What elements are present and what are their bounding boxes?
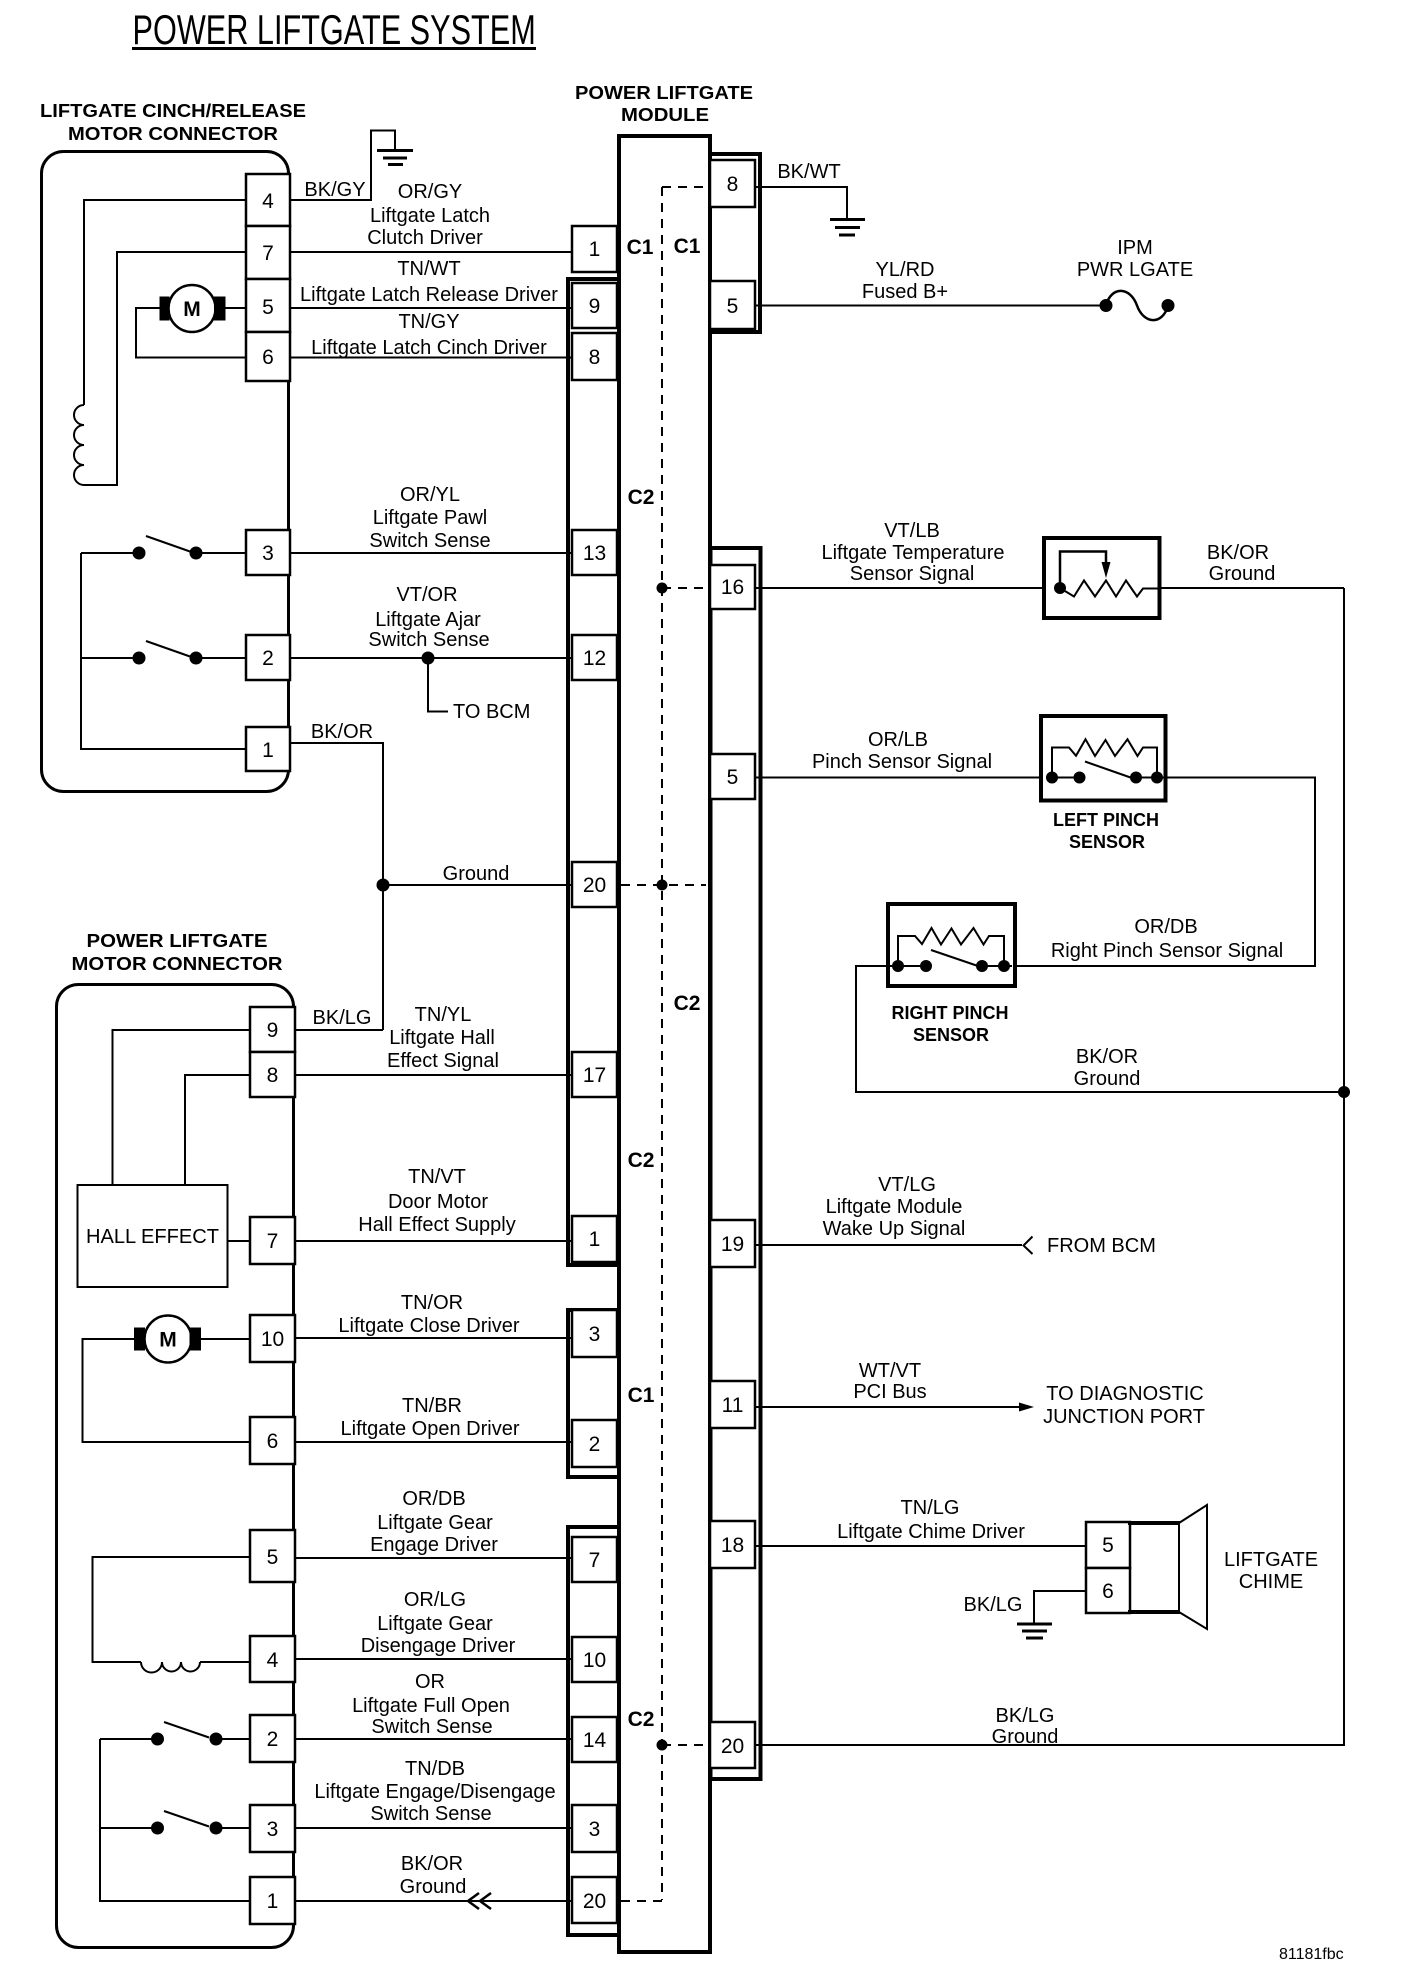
svg-text:11: 11	[722, 1394, 744, 1417]
module left pin 20 C2	[572, 862, 617, 907]
module right pin 18 C2	[710, 1521, 755, 1568]
J2 pin 1	[250, 1877, 295, 1924]
svg-text:Liftgate Engage/Disengage: Liftgate Engage/Disengage	[314, 1781, 555, 1803]
svg-text:10: 10	[583, 1649, 606, 1672]
switch S1 liftgate pawl switch	[81, 536, 246, 560]
svg-text:POWER LIFTGATE SYSTEM: POWER LIFTGATE SYSTEM	[133, 6, 536, 53]
label BK/OR Ground right pinch	[1074, 1046, 1141, 1090]
svg-text:Liftgate Gear: Liftgate Gear	[377, 1613, 493, 1635]
svg-text:OR/DB: OR/DB	[1134, 916, 1197, 938]
label OR/LB Pinch Sensor Signal	[812, 729, 992, 773]
wire J1-2 to module C2-12	[290, 657, 572, 659]
svg-text:Switch Sense: Switch Sense	[371, 1716, 492, 1738]
internal C1/C2 dashed bus	[661, 187, 663, 1900]
svg-text:Ground: Ground	[400, 1876, 467, 1898]
svg-text:MOTOR CONNECTOR: MOTOR CONNECTOR	[68, 124, 278, 144]
svg-text:C2: C2	[628, 1708, 655, 1731]
svg-text:Fused B+: Fused B+	[862, 281, 948, 303]
label LIFTGATE CINCH/RELEASE MOTOR CONNECTOR	[40, 101, 306, 144]
svg-text:20: 20	[721, 1735, 744, 1758]
J1 pin 5	[246, 279, 290, 332]
wire switch common bus to pin1	[81, 553, 246, 749]
wire module C2-11 PCI bus	[755, 1406, 1021, 1408]
svg-text:Effect Signal: Effect Signal	[387, 1050, 499, 1072]
svg-text:TN/WT: TN/WT	[397, 258, 460, 280]
connector group box C1 left	[568, 1310, 619, 1477]
svg-text:LIFTGATE CINCH/RELEASE: LIFTGATE CINCH/RELEASE	[40, 101, 306, 121]
J2 pin 3	[250, 1805, 295, 1852]
svg-text:M: M	[159, 1329, 177, 1352]
svg-text:7: 7	[267, 1230, 279, 1253]
switch S2 liftgate ajar switch	[81, 641, 246, 665]
svg-text:Liftgate Hall: Liftgate Hall	[389, 1027, 495, 1049]
wire J2-6 to module C1-2	[295, 1441, 572, 1443]
switch S3 liftgate full open switch	[100, 1722, 250, 1746]
svg-text:1: 1	[267, 1890, 279, 1913]
svg-text:C1: C1	[627, 236, 654, 259]
svg-text:Right Pinch Sensor Signal: Right Pinch Sensor Signal	[1051, 940, 1283, 962]
svg-text:5: 5	[1102, 1534, 1114, 1557]
wire J1-6 to module C2-8	[290, 357, 572, 359]
wire J2-3 to module C2-3	[295, 1827, 572, 1829]
title POWER LIFTGATE SYSTEM	[132, 6, 536, 53]
svg-text:YL/RD: YL/RD	[876, 259, 935, 281]
off-page chevrons on ground wire	[468, 1893, 491, 1909]
svg-text:3: 3	[589, 1818, 601, 1841]
svg-text:BK/GY: BK/GY	[304, 179, 365, 201]
module left pin 3 C1	[572, 1310, 617, 1357]
wire J1-7 to module C1-1	[290, 251, 572, 253]
dashed branch to bottom left pin 20	[621, 1900, 662, 1902]
label BK/OR Ground temp sensor	[1207, 542, 1275, 585]
svg-text:Switch Sense: Switch Sense	[370, 1803, 491, 1825]
label TN/OR Liftgate Close Driver	[338, 1292, 520, 1337]
label TN/BR Liftgate Open Driver	[341, 1395, 520, 1440]
svg-text:Liftgate Latch: Liftgate Latch	[370, 205, 490, 227]
svg-text:POWER LIFTGATE: POWER LIFTGATE	[575, 83, 753, 103]
svg-text:3: 3	[589, 1323, 601, 1346]
label IPM PWR LGATE	[1077, 237, 1193, 281]
right pinch sensor SW6	[888, 904, 1015, 986]
svg-text:TN/GY: TN/GY	[398, 311, 459, 333]
svg-text:6: 6	[1102, 1580, 1114, 1603]
svg-text:2: 2	[267, 1728, 279, 1751]
wire J2-7 to module C2-1	[295, 1240, 572, 1242]
left pinch sensor SW5	[1041, 716, 1166, 801]
svg-text:1: 1	[589, 1228, 601, 1251]
wire hall effect to J2-9	[113, 1030, 251, 1185]
svg-text:C1: C1	[628, 1384, 655, 1407]
J2 pin 4	[250, 1636, 295, 1682]
svg-text:14: 14	[583, 1729, 607, 1752]
svg-text:Sensor Signal: Sensor Signal	[850, 563, 975, 585]
svg-text:TN/OR: TN/OR	[401, 1292, 463, 1314]
label VT/LB Liftgate Temperature Sensor Signal	[821, 520, 1004, 585]
module left pin 2 C1	[572, 1420, 617, 1467]
svg-text:5: 5	[267, 1546, 279, 1569]
svg-text:3: 3	[262, 542, 274, 565]
label OR/YL Liftgate Pawl Switch Sense	[369, 484, 490, 552]
svg-text:Liftgate Full Open: Liftgate Full Open	[352, 1695, 510, 1717]
junction dot ground node	[377, 879, 390, 892]
label YL/RD Fused B+	[862, 259, 948, 303]
wire J2-10 to module C1-3	[295, 1337, 572, 1339]
wire BK/GY pin4 to ground	[290, 131, 395, 201]
svg-text:TN/VT: TN/VT	[408, 1166, 466, 1188]
svg-text:TO DIAGNOSTIC: TO DIAGNOSTIC	[1046, 1383, 1203, 1405]
label POWER LIFTGATE MOTOR CONNECTOR	[72, 931, 283, 974]
svg-text:SENSOR: SENSOR	[1069, 832, 1145, 852]
label TN/GY Liftgate Latch Cinch Driver	[311, 311, 547, 359]
J2 pin 9	[250, 1007, 295, 1052]
svg-text:Switch Sense: Switch Sense	[368, 629, 489, 651]
label OR/GY Liftgate Latch Clutch Driver	[367, 181, 490, 249]
wire J2-5 to gear coil	[93, 1557, 251, 1662]
J1 pin 3	[246, 530, 290, 575]
svg-text:Liftgate Latch Release Driver: Liftgate Latch Release Driver	[300, 284, 558, 306]
module left pin 17 C2	[572, 1052, 617, 1097]
module left pin 1 C2	[572, 1216, 617, 1262]
wire motor to pin5	[225, 307, 246, 309]
svg-text:Ground: Ground	[992, 1726, 1059, 1748]
wire right pinch to ground bus	[856, 966, 1344, 1092]
label TN/WT Liftgate Latch Release Driver	[300, 258, 558, 306]
svg-text:BK/OR: BK/OR	[1076, 1046, 1138, 1068]
svg-text:M: M	[183, 298, 201, 321]
svg-text:20: 20	[583, 874, 606, 897]
wire motor to J2-6	[83, 1339, 251, 1442]
svg-text:TN/BR: TN/BR	[402, 1395, 462, 1417]
svg-text:OR/GY: OR/GY	[398, 181, 462, 203]
module left pin 1 C1	[572, 226, 617, 272]
module right pin 5 C1	[710, 281, 755, 329]
label TN/YL Liftgate Hall Effect Signal	[387, 1004, 499, 1072]
svg-text:Liftgate Close Driver: Liftgate Close Driver	[338, 1315, 520, 1337]
svg-text:16: 16	[721, 576, 744, 599]
svg-text:C2: C2	[628, 1149, 655, 1172]
svg-text:VT/LB: VT/LB	[884, 520, 940, 542]
wire hall effect to J2-7	[228, 1240, 251, 1242]
label LIFTGATE CHIME	[1224, 1549, 1318, 1593]
dashed branch to right pin 20	[662, 1744, 708, 1746]
svg-text:IPM: IPM	[1117, 237, 1153, 259]
svg-text:JUNCTION PORT: JUNCTION PORT	[1043, 1406, 1205, 1428]
svg-text:4: 4	[267, 1649, 279, 1672]
wire hall effect to J2-8	[185, 1075, 250, 1185]
svg-text:4: 4	[262, 190, 274, 213]
svg-text:3: 3	[267, 1818, 279, 1841]
module right pin 20 C2	[710, 1722, 755, 1768]
svg-text:Liftgate Pawl: Liftgate Pawl	[373, 507, 488, 529]
J1 pin 7	[246, 226, 290, 279]
motor M1 cinch/release motor	[160, 285, 226, 332]
dashed branch to right pin 16	[662, 587, 708, 589]
svg-text:1: 1	[262, 739, 274, 762]
svg-text:BK/LG: BK/LG	[313, 1007, 372, 1029]
svg-text:7: 7	[589, 1549, 601, 1572]
module left pin 10 C2	[572, 1637, 617, 1682]
label OR/DB Right Pinch Sensor Signal	[1051, 916, 1283, 962]
module left pin 7 C2	[572, 1537, 617, 1582]
wire J2-5 to module C2-7	[295, 1557, 572, 1559]
svg-text:PCI Bus: PCI Bus	[853, 1381, 926, 1403]
module left pin 9 C2	[572, 283, 617, 328]
ground G1	[377, 151, 413, 165]
connector J1 liftgate cinch/release motor connector body	[42, 152, 289, 792]
wire J2-1 to module C2-20 bottom	[295, 1900, 572, 1902]
svg-text:Liftgate Gear: Liftgate Gear	[377, 1512, 493, 1534]
svg-text:PWR LGATE: PWR LGATE	[1077, 259, 1193, 281]
wire J1-1 BK/OR down to ground junction	[290, 743, 383, 1030]
speaker liftgate chime	[1128, 1505, 1207, 1629]
wire J2-8 to module C2-17	[295, 1074, 572, 1076]
svg-text:SENSOR: SENSOR	[913, 1025, 989, 1045]
junction dot bus/pin16	[657, 583, 668, 594]
svg-text:9: 9	[589, 295, 601, 318]
svg-text:2: 2	[262, 647, 274, 670]
svg-text:9: 9	[267, 1019, 279, 1042]
J1 pin 1	[246, 727, 290, 771]
wire J2-9 to ground node vertical	[295, 1029, 383, 1031]
temperature sensor RT1	[1044, 538, 1160, 618]
wire J2-4 to module C2-10	[295, 1658, 572, 1660]
J1 pin 4	[246, 174, 290, 226]
chime connector pin 6	[1086, 1568, 1130, 1613]
svg-text:Engage Driver: Engage Driver	[370, 1534, 498, 1556]
svg-text:8: 8	[589, 346, 601, 369]
svg-text:19: 19	[721, 1233, 744, 1256]
dashed branch to left pin 20	[621, 884, 706, 886]
arrowhead to diagnostic port	[1019, 1403, 1034, 1412]
svg-text:Ground: Ground	[1209, 563, 1276, 585]
label LEFT PINCH SENSOR	[1053, 810, 1159, 852]
svg-text:C2: C2	[674, 992, 701, 1015]
connector group box C1 right	[710, 154, 760, 332]
module left pin 20 C2 bottom	[572, 1877, 617, 1923]
label VT/LG Liftgate Module Wake Up Signal	[823, 1174, 966, 1240]
module left pin 13 C2	[572, 530, 617, 575]
svg-text:Door Motor: Door Motor	[388, 1191, 488, 1213]
module U1 power liftgate module body	[619, 136, 710, 1952]
label BK/OR Ground bottom	[400, 1853, 467, 1898]
J2 pin 10	[250, 1315, 295, 1362]
svg-text:17: 17	[583, 1064, 606, 1087]
wire temp sensor to ground bus	[1160, 587, 1345, 589]
dashed branch to right pin 8 C1	[662, 186, 708, 188]
svg-text:LEFT PINCH: LEFT PINCH	[1053, 810, 1159, 830]
junction dot bus/pin20 left	[657, 880, 668, 891]
label TN/VT Door Motor Hall Effect Supply	[358, 1166, 516, 1236]
svg-text:Liftgate Module: Liftgate Module	[826, 1196, 963, 1218]
label VT/OR Liftgate Ajar Switch Sense	[368, 584, 489, 651]
svg-text:MODULE: MODULE	[621, 105, 709, 125]
wire chime pin6 to ground	[1034, 1591, 1086, 1624]
wire switch bus to J2-1	[100, 1739, 250, 1901]
ground G2	[830, 220, 865, 236]
svg-text:8: 8	[267, 1064, 279, 1087]
svg-text:5: 5	[727, 295, 739, 318]
svg-text:7: 7	[262, 242, 274, 265]
svg-text:20: 20	[583, 1890, 606, 1913]
wire pin4 to coil	[84, 200, 246, 405]
svg-text:BK/OR: BK/OR	[1207, 542, 1269, 564]
inductor L1 cinch/release solenoid coil	[74, 405, 84, 485]
svg-text:OR/YL: OR/YL	[400, 484, 460, 506]
svg-text:TN/YL: TN/YL	[415, 1004, 472, 1026]
svg-text:81181fbc: 81181fbc	[1279, 1946, 1344, 1963]
svg-text:Wake Up Signal: Wake Up Signal	[823, 1218, 966, 1240]
wire left pinch to right pinch signal	[1017, 778, 1315, 967]
wire module C1-8 to ground	[755, 187, 847, 220]
label BK/LG Ground right	[992, 1705, 1059, 1748]
module right pin 5 C2	[710, 754, 755, 799]
wire coil to pin7	[84, 252, 246, 485]
svg-text:FROM BCM: FROM BCM	[1047, 1235, 1156, 1257]
svg-text:Liftgate Ajar: Liftgate Ajar	[375, 609, 481, 631]
svg-text:Pinch Sensor Signal: Pinch Sensor Signal	[812, 751, 992, 773]
svg-text:VT/OR: VT/OR	[396, 584, 457, 606]
label RIGHT PINCH SENSOR	[892, 1003, 1009, 1045]
hall effect sensor U2	[78, 1185, 228, 1287]
module left pin 8 C2	[572, 333, 617, 380]
junction dot ground bus	[1338, 1086, 1350, 1098]
switch S4 engage/disengage switch	[100, 1811, 250, 1835]
label WT/VT PCI Bus	[853, 1360, 926, 1403]
svg-text:1: 1	[589, 238, 601, 261]
svg-text:TO BCM: TO BCM	[453, 701, 530, 723]
wire module C2-19 from BCM	[755, 1244, 1022, 1246]
svg-text:BK/LG: BK/LG	[996, 1705, 1055, 1727]
wire module C1-5 to fuse	[755, 305, 1100, 307]
svg-text:LIFTGATE: LIFTGATE	[1224, 1549, 1318, 1571]
svg-text:BK/OR: BK/OR	[311, 721, 373, 743]
J2 pin 8	[250, 1052, 295, 1097]
svg-text:HALL EFFECT: HALL EFFECT	[86, 1226, 219, 1248]
svg-text:10: 10	[261, 1328, 284, 1351]
svg-text:BK/LG: BK/LG	[964, 1594, 1023, 1616]
svg-text:BK/OR: BK/OR	[401, 1853, 463, 1875]
svg-text:6: 6	[262, 346, 274, 369]
svg-text:5: 5	[262, 296, 274, 319]
J2 pin 7	[250, 1217, 295, 1264]
svg-text:Clutch Driver: Clutch Driver	[367, 227, 483, 249]
junction dot TO BCM tap	[422, 652, 435, 665]
svg-text:WT/VT: WT/VT	[859, 1360, 921, 1382]
motor M2 power liftgate motor	[134, 1316, 201, 1363]
module left pin 3 C2	[572, 1805, 617, 1852]
connector group box C2 right	[711, 548, 761, 1779]
module right pin 19 C2	[710, 1220, 755, 1267]
ground bus right side	[755, 588, 1344, 1745]
svg-text:8: 8	[727, 173, 739, 196]
label TN/DB Liftgate Engage/Disengage Switch Sense	[314, 1758, 555, 1825]
svg-text:Disengage Driver: Disengage Driver	[361, 1635, 516, 1657]
wire ground node to module C2-20	[383, 884, 572, 886]
wire tap to BCM	[428, 658, 448, 712]
module right pin 16 C2	[710, 565, 755, 609]
wire coil to J2-4	[200, 1661, 250, 1663]
svg-text:OR/DB: OR/DB	[402, 1488, 465, 1510]
connector group box C2 left lower	[568, 1527, 619, 1935]
J2 pin 6	[250, 1417, 295, 1464]
svg-text:Hall Effect Supply: Hall Effect Supply	[358, 1214, 516, 1236]
label POWER LIFTGATE MODULE	[575, 83, 753, 125]
J2 pin 2	[250, 1715, 295, 1762]
chime connector pin 5	[1086, 1522, 1130, 1568]
ground G3	[1017, 1624, 1052, 1638]
label OR Liftgate Full Open Switch Sense	[352, 1671, 510, 1738]
svg-text:C2: C2	[628, 486, 655, 509]
svg-text:13: 13	[583, 542, 606, 565]
module left pin 14 C2	[572, 1717, 617, 1762]
svg-text:Liftgate Temperature: Liftgate Temperature	[821, 542, 1004, 564]
module left pin 12 C2	[572, 635, 617, 680]
wire module C2-5 to left pinch sensor	[755, 777, 1041, 779]
svg-text:C1: C1	[674, 235, 701, 258]
inductor L2 gear engage coil	[141, 1662, 200, 1673]
junction dot bus/pin20 right	[657, 1740, 668, 1751]
fuse F1 IPM PWR LGATE	[1100, 291, 1175, 320]
wire motor to pin6	[136, 308, 246, 358]
svg-text:5: 5	[727, 766, 739, 789]
svg-text:6: 6	[267, 1430, 279, 1453]
connector group box C2 left tall	[568, 279, 619, 1265]
svg-text:18: 18	[721, 1534, 744, 1557]
svg-text:VT/LG: VT/LG	[878, 1174, 936, 1196]
wire J1-3 to module C2-13	[290, 552, 572, 554]
svg-text:BK/WT: BK/WT	[777, 161, 840, 183]
off-page chevron FROM BCM	[1024, 1237, 1033, 1255]
wire motor to J2-10	[201, 1338, 250, 1340]
svg-text:OR/LB: OR/LB	[868, 729, 928, 751]
wire module C2-16 to temp sensor	[755, 587, 1042, 589]
svg-text:12: 12	[583, 647, 606, 670]
module right pin 8 C1	[710, 160, 755, 207]
svg-text:POWER LIFTGATE: POWER LIFTGATE	[87, 931, 268, 951]
wire module C2-18 to chime pin5	[755, 1545, 1086, 1547]
J2 pin 5	[250, 1530, 295, 1582]
svg-text:Ground: Ground	[1074, 1068, 1141, 1090]
svg-text:CHIME: CHIME	[1239, 1571, 1303, 1593]
wire J1-5 to module C2-9	[290, 307, 572, 309]
wire J2-2 to module C2-14	[295, 1738, 572, 1740]
svg-text:Liftgate Latch Cinch Driver: Liftgate Latch Cinch Driver	[311, 337, 547, 359]
label TO DIAGNOSTIC JUNCTION PORT	[1043, 1383, 1205, 1428]
label TN/LG Liftgate Chime Driver	[837, 1497, 1025, 1543]
svg-text:RIGHT PINCH: RIGHT PINCH	[892, 1003, 1009, 1023]
svg-text:Liftgate Chime Driver: Liftgate Chime Driver	[837, 1521, 1025, 1543]
svg-text:Ground: Ground	[443, 863, 510, 885]
svg-text:TN/DB: TN/DB	[405, 1758, 465, 1780]
svg-text:Switch Sense: Switch Sense	[369, 530, 490, 552]
svg-text:TN/LG: TN/LG	[901, 1497, 960, 1519]
J1 pin 6	[246, 332, 290, 381]
label OR/DB Liftgate Gear Engage Driver	[370, 1488, 498, 1556]
connector J2 power liftgate motor connector body	[57, 985, 294, 1948]
svg-text:OR: OR	[415, 1671, 445, 1693]
svg-text:Liftgate Open Driver: Liftgate Open Driver	[341, 1418, 520, 1440]
svg-text:OR/LG: OR/LG	[404, 1589, 466, 1611]
module right pin 11 C2	[710, 1381, 755, 1428]
label OR/LG Liftgate Gear Disengage Driver	[361, 1589, 516, 1657]
svg-text:2: 2	[589, 1433, 601, 1456]
svg-text:MOTOR CONNECTOR: MOTOR CONNECTOR	[72, 954, 283, 974]
J1 pin 2	[246, 635, 290, 680]
